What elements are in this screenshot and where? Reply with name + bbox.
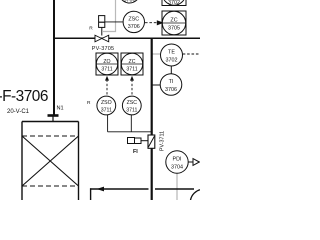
svg-text:N1: N1	[57, 105, 64, 111]
PV-3705 actuator (piston)	[101, 27, 103, 36]
signal wire actuator to ZSC-3706	[105, 21, 123, 23]
wire TE to TI	[170, 66, 172, 74]
svg-text:PV-3711: PV-3711	[160, 131, 166, 151]
svg-text:3702: 3702	[168, 0, 180, 6]
pump casing arc (bottom right corner)	[190, 189, 216, 215]
svg-text:3705: 3705	[168, 26, 180, 32]
wire: horizontal pipe at y=38	[53, 37, 200, 39]
dashed signal ZSO-3711 up to ZO-3711 with arrow	[106, 80, 108, 95]
gray process connection to TE-3702	[153, 53, 161, 55]
svg-text:3711: 3711	[101, 107, 112, 113]
instrument ZSO-3711	[97, 96, 116, 115]
dashed signal from TE to right edge	[183, 53, 200, 55]
svg-text:-F-3706: -F-3706	[0, 88, 48, 105]
instrument ZSC-3706	[123, 11, 144, 32]
signal arrow from PDI to right	[188, 161, 193, 163]
gray background rectangle (cut off at top)	[103, 0, 116, 32]
control valve PV-3705 body	[95, 35, 109, 42]
svg-text:3711: 3711	[101, 66, 112, 72]
svg-text:TE: TE	[168, 50, 175, 56]
svg-text:ZO: ZO	[103, 59, 110, 65]
instrument ZC-3705 (shared display, square)	[162, 11, 186, 35]
svg-text:3706: 3706	[124, 0, 136, 4]
svg-text:ZSC: ZSC	[128, 16, 139, 22]
instrument TE-3702	[161, 44, 183, 66]
svg-text:PV-3705: PV-3705	[92, 46, 115, 52]
signal wires from limit switches to valve stem	[107, 115, 109, 132]
svg-text:3704: 3704	[171, 165, 183, 171]
instrument ZSC-3711	[122, 96, 141, 115]
svg-text:R: R	[89, 25, 93, 31]
dashed signal ZSC-3711 up to ZC-3711 with arrow	[131, 80, 133, 95]
valve PV-3711 body (vertical)	[148, 135, 155, 148]
svg-text:PDI: PDI	[173, 157, 182, 163]
nozzle N1 flange on vessel	[48, 114, 59, 117]
svg-text:20-V-C1: 20-V-C1	[7, 109, 30, 115]
instrument circle 3706 (cut off at top edge)	[119, 0, 140, 3]
dashed signal wire ZSC to ZC-3705 with arrow	[145, 22, 159, 24]
svg-text:3702: 3702	[166, 58, 178, 64]
flow arrow on bottom pipe	[97, 187, 105, 192]
svg-text:3706: 3706	[165, 87, 177, 93]
svg-text:ZSO: ZSO	[101, 100, 112, 106]
instrument TI-3706	[160, 74, 182, 96]
instrument ZO-3711 (shared display, square)	[96, 53, 118, 75]
wire: vertical pipe from top to vessel nozzle	[53, 0, 55, 115]
svg-text:R: R	[87, 100, 91, 106]
svg-text:FI: FI	[133, 149, 138, 155]
instrument square 3702 (cut off at top)	[162, 0, 186, 6]
instrument PDI-3704	[166, 151, 188, 173]
svg-text:TI: TI	[169, 79, 174, 85]
svg-text:3711: 3711	[126, 107, 137, 113]
vessel F-3706	[22, 122, 79, 201]
instrument ZC-3711 (shared display, square)	[121, 53, 143, 75]
wire: bottom pipe with left flow arrow and gap jump at vertical pipe	[90, 188, 149, 190]
wire TI to pipe	[153, 84, 161, 86]
svg-text:3706: 3706	[128, 24, 140, 30]
svg-text:3711: 3711	[126, 66, 137, 72]
svg-text:ZC: ZC	[170, 18, 177, 24]
gray tap line from PDI-3704 down	[176, 173, 178, 201]
svg-text:ZC: ZC	[129, 59, 136, 65]
wire: main vertical pipe right	[151, 38, 153, 200]
svg-text:ZSC: ZSC	[127, 100, 138, 106]
solenoid / actuator of PV-3711	[128, 138, 135, 144]
